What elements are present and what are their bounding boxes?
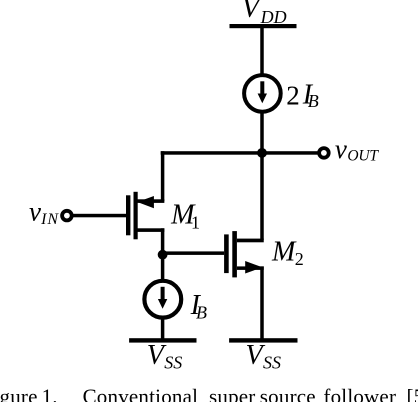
ground rail VSS right bar — [229, 338, 297, 342]
power rail VDD label — [242, 0, 287, 27]
current source 2IB — [244, 75, 281, 112]
M1 gate bar — [126, 195, 130, 235]
svg-text:M: M — [271, 236, 297, 267]
M1 channel bar — [134, 192, 138, 240]
svg-text:2: 2 — [295, 249, 304, 269]
wire IB to VSS left bar — [161, 317, 165, 340]
current source IB — [144, 281, 181, 318]
M1 source arrow (PMOS, points into channel) — [137, 196, 154, 208]
label VSS right — [246, 340, 282, 373]
label M1 — [170, 199, 200, 232]
terminal vIN — [62, 211, 72, 221]
label M2 — [271, 236, 304, 269]
svg-text:IN: IN — [40, 211, 59, 228]
wire M2 drain to output node — [260, 151, 264, 240]
label vOUT — [335, 134, 379, 164]
wire output node horizontal — [161, 151, 318, 155]
wire VDD bar to 2IB current source — [260, 26, 264, 76]
svg-text:1: 1 — [191, 212, 200, 232]
svg-text:SS: SS — [263, 353, 281, 373]
svg-text:v: v — [29, 196, 41, 226]
M1 source terminal wire (top) — [138, 199, 165, 203]
terminal vOUT — [319, 148, 329, 158]
svg-text:B: B — [196, 303, 207, 323]
ground rail VSS left bar — [129, 338, 196, 342]
power rail VDD bar — [230, 24, 297, 28]
junction output node — [257, 148, 267, 158]
transistor M2 — [224, 231, 264, 277]
wire output node to M1 source — [161, 151, 165, 201]
label VSS left — [147, 340, 183, 373]
wire node A to M2 gate — [163, 251, 225, 255]
caption Figure 1 — [0, 385, 418, 402]
wire M2 source to VSS right bar — [260, 266, 264, 340]
M2 drain terminal wire — [237, 239, 264, 243]
wire M1 drain to node A — [161, 228, 165, 255]
label vIN — [29, 196, 59, 227]
wire node A to IB current source — [161, 254, 165, 282]
svg-text:Figure 1. Conventional super s: Figure 1. Conventional super source foll… — [0, 385, 418, 402]
svg-text:v: v — [335, 134, 347, 164]
junction node A — [158, 250, 168, 260]
svg-text:V: V — [242, 0, 263, 24]
M2 channel bar — [232, 231, 237, 277]
svg-text:SS: SS — [164, 353, 182, 373]
wire vIN to M1 gate — [71, 214, 126, 218]
M1 drain terminal wire (bottom) — [138, 228, 165, 232]
label IB value — [190, 290, 207, 323]
svg-text:DD: DD — [260, 7, 287, 27]
M2 source terminal wire — [237, 266, 264, 270]
label 2IB value — [286, 80, 319, 112]
svg-text:OUT: OUT — [347, 148, 379, 165]
wire 2IB to output node — [260, 112, 264, 154]
M2 gate bar — [224, 234, 229, 273]
svg-text:2: 2 — [286, 81, 300, 111]
transistor M1 — [126, 192, 164, 240]
svg-text:B: B — [308, 91, 319, 111]
M2 source arrow (NMOS, points away from channel) — [245, 261, 262, 274]
